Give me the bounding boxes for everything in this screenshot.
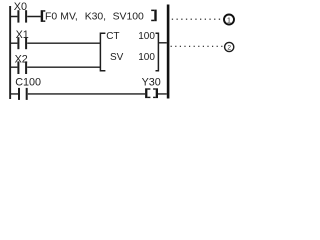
svg-text:Y30: Y30 xyxy=(142,77,161,89)
svg-text:SV100: SV100 xyxy=(113,11,144,22)
svg-text:100: 100 xyxy=(138,31,155,42)
svg-text:2: 2 xyxy=(227,44,231,51)
svg-text:F0: F0 xyxy=(45,11,57,22)
svg-text:SV: SV xyxy=(110,52,124,63)
svg-text:C100: C100 xyxy=(15,77,41,89)
svg-text:1: 1 xyxy=(227,15,231,24)
svg-text:100: 100 xyxy=(138,52,155,63)
svg-text:MV,: MV, xyxy=(60,11,78,22)
svg-text:K30,: K30, xyxy=(85,11,106,22)
svg-text:X0: X0 xyxy=(14,1,27,13)
svg-text:CT: CT xyxy=(106,31,119,42)
